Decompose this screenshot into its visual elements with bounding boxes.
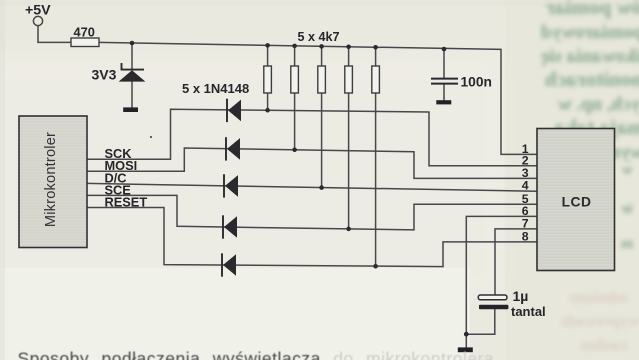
wire resistor R4 column xyxy=(321,46,323,187)
svg-text:ych, np. w: ych, np. w xyxy=(558,94,639,115)
svg-text:w: w xyxy=(621,162,632,178)
node row3 R4 xyxy=(319,185,324,190)
diode D4 1N4148 xyxy=(224,174,238,197)
node row4 R5 xyxy=(346,227,351,232)
node rail R5 xyxy=(346,45,351,50)
node zener tap xyxy=(130,41,135,46)
wire SCK row to LCD pin2 xyxy=(87,109,537,166)
node rail 100n xyxy=(442,47,447,52)
svg-text:470: 470 xyxy=(74,24,95,39)
resistor R6 4k7 xyxy=(372,66,380,93)
speck xyxy=(150,136,152,138)
svg-text:LCD: LCD xyxy=(562,195,592,210)
node rail R6 xyxy=(373,45,378,50)
resistor R3 4k7 xyxy=(291,66,299,93)
zener diode D1 3V3 xyxy=(119,63,146,82)
node row1 R2 xyxy=(265,108,270,113)
resistor R4 4k7 xyxy=(318,66,326,93)
svg-text:ie: ie xyxy=(621,201,632,217)
node rail R2 xyxy=(265,43,270,48)
node rail R4 xyxy=(319,44,324,49)
ground (main) xyxy=(458,347,473,352)
node rail R3 xyxy=(292,44,297,49)
resistor R2 4k7 xyxy=(264,66,272,93)
svg-text:pomiarowyd: pomiarowyd xyxy=(541,22,639,43)
svg-text:RESET: RESET xyxy=(105,195,148,210)
svg-text:100n: 100n xyxy=(461,74,492,89)
Mikrokontroler U1 xyxy=(19,116,87,248)
node row2 R3 xyxy=(292,148,297,153)
diode D6 1N4148 xyxy=(222,253,236,276)
wire resistor R6 column xyxy=(375,47,377,266)
svg-text:ów pomiar: ów pomiar xyxy=(546,0,639,19)
+5V terminal xyxy=(33,16,42,25)
LCD module xyxy=(537,129,615,271)
wire +5V drop xyxy=(38,26,71,43)
node ground tantal xyxy=(464,332,469,337)
svg-text:tantal: tantal xyxy=(511,304,546,319)
diode D2 1N4148 xyxy=(227,99,241,122)
svg-text:1µ: 1µ xyxy=(513,288,529,304)
svg-text:tikowania się: tikowania się xyxy=(541,46,639,67)
svg-text:wyprowadz: wyprowadz xyxy=(561,313,639,330)
svg-text:zasilan: zasilan xyxy=(580,337,627,354)
svg-text:5 x 4k7: 5 x 4k7 xyxy=(298,30,340,44)
svg-text:odmiany: odmiany xyxy=(568,289,628,306)
bleed-through text from reverse page (green, blurred) xyxy=(541,0,639,252)
wire 5V rail xyxy=(99,42,537,154)
wire RESET row to LCD pin8 xyxy=(87,208,537,267)
wire D/C row to LCD pin4 xyxy=(87,183,537,191)
wire zener tap xyxy=(131,43,133,107)
ground (100n) xyxy=(436,100,451,104)
svg-text:7: 7 xyxy=(522,217,529,231)
wire tantal negative to ground node xyxy=(466,309,495,334)
svg-text:+5V: +5V xyxy=(25,3,51,19)
wire LCD pin6 to ground xyxy=(466,216,537,347)
capacitor C2 1u tantal xyxy=(478,295,508,309)
ground (zener) xyxy=(123,107,138,112)
svg-text:Sposoby podłączenia wyświetlac: Sposoby podłączenia wyświetlacza do mikr… xyxy=(18,349,495,360)
svg-text:5 x 1N4148: 5 x 1N4148 xyxy=(182,81,249,96)
node row5 R6 xyxy=(373,264,378,269)
wire resistor R3 column xyxy=(294,46,296,150)
capacitor C1 100n xyxy=(431,79,458,84)
diode D3 1N4148 xyxy=(226,137,240,160)
wire SCE row to LCD pin5 xyxy=(87,195,537,230)
svg-text:3V3: 3V3 xyxy=(92,67,117,83)
wire 100n leads xyxy=(443,49,445,100)
svg-text:m: m xyxy=(620,236,633,252)
svg-text:Mikrokontroler: Mikrokontroler xyxy=(43,132,59,227)
wire LCD pin7 to tantal xyxy=(495,229,537,296)
svg-text:4: 4 xyxy=(522,179,529,193)
wire resistor R5 column xyxy=(348,47,350,229)
caption xyxy=(18,349,495,360)
wire MOSI row to LCD pin3 xyxy=(87,148,537,178)
resistor R1 470 xyxy=(71,38,99,47)
wire resistor R2 column xyxy=(267,45,269,110)
svg-text:8: 8 xyxy=(522,230,529,244)
resistor R5 4k7 xyxy=(345,66,353,93)
diode D5 1N4148 xyxy=(223,215,237,238)
svg-text:monitorach: monitorach xyxy=(545,67,639,91)
